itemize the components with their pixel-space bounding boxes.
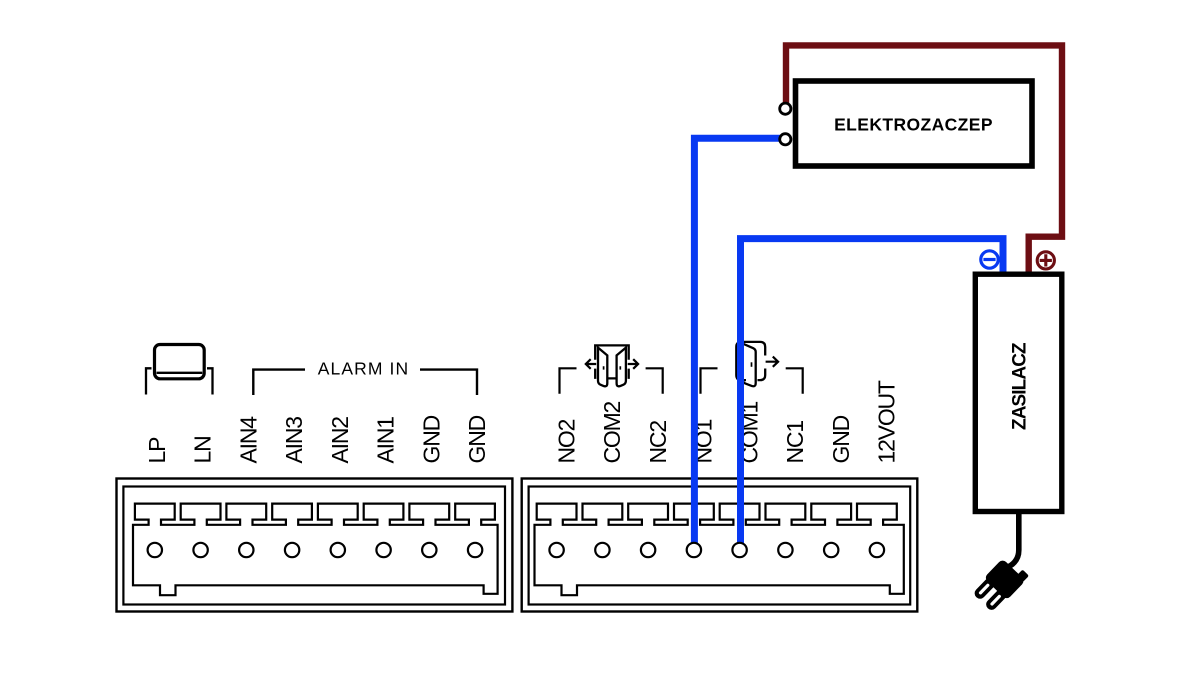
- svg-text:GND: GND: [464, 415, 490, 463]
- relay 2 arrow right: [766, 357, 779, 367]
- svg-text:AIN2: AIN2: [327, 417, 353, 464]
- terminal block 2 connector body with 8 slots: [535, 504, 904, 596]
- svg-text:ZASILACZ: ZASILACZ: [1010, 342, 1031, 430]
- svg-text:ELEKTROZACZEP: ELEKTROZACZEP: [834, 114, 993, 134]
- ELEKTROZACZEP terminal 1: [780, 103, 791, 114]
- svg-text:12VOUT: 12VOUT: [874, 380, 900, 463]
- terminal block 1 inner frame: [123, 487, 505, 605]
- svg-text:AIN3: AIN3: [281, 417, 307, 464]
- relay 2 bracket right: [786, 368, 803, 393]
- terminal block 1 connector body with 8 slots: [133, 504, 498, 596]
- relay 2 icon (door opening, arrow right) above COM1: [736, 342, 765, 386]
- ZASILACZ box: [975, 274, 1062, 511]
- terminal block 2 inner frame: [529, 487, 911, 605]
- svg-text:GND: GND: [418, 415, 444, 463]
- ALARM IN range bracket: [253, 370, 477, 395]
- ELEKTROZACZEP box: [796, 81, 1033, 166]
- svg-text:LP: LP: [144, 437, 170, 464]
- mains plug: [971, 554, 1030, 614]
- relay 1 arrow right: [628, 359, 638, 369]
- handset bracket left: [146, 368, 152, 394]
- svg-text:GND: GND: [828, 415, 854, 463]
- wire blue 1: ELEKTROZACZEP terminal 2 to NO1: [694, 138, 781, 550]
- svg-text:NC2: NC2: [645, 421, 671, 464]
- svg-text:AIN1: AIN1: [373, 417, 399, 464]
- relay 1 icon (double door, arrows out) above COM2: [595, 345, 629, 386]
- relay 1 bracket right: [646, 368, 663, 393]
- pin holes block 2: [549, 543, 884, 557]
- relay 1 door handles: [604, 366, 621, 369]
- relay 1 bracket left: [560, 368, 577, 393]
- svg-text:AIN4: AIN4: [235, 416, 261, 464]
- svg-text:NC1: NC1: [782, 421, 808, 464]
- ELEKTROZACZEP terminal 2: [780, 134, 791, 145]
- handset bracket right: [207, 368, 213, 394]
- plus symbol: [1037, 252, 1054, 269]
- relay 1 arrow left: [586, 359, 596, 369]
- terminal block 1 outer frame: [117, 479, 513, 612]
- wire blue 2: ZASILACZ minus to COM1: [741, 239, 1004, 550]
- svg-text:LN: LN: [190, 436, 216, 463]
- handset icon (monitor) above LP LN: [155, 345, 205, 379]
- svg-text:NO2: NO2: [553, 419, 579, 463]
- terminal block 2 outer frame: [522, 479, 918, 612]
- svg-text:ALARM IN: ALARM IN: [318, 358, 409, 378]
- svg-text:COM2: COM2: [599, 401, 625, 463]
- pin holes block 1: [148, 543, 483, 557]
- wire maroon: ELEKTROZACZEP terminal 1 loop to ZASILACZ plus: [786, 45, 1062, 273]
- relay 2 door handle: [751, 362, 753, 367]
- relay 2 bracket left: [701, 368, 718, 393]
- power cord from ZASILACZ: [1009, 512, 1019, 567]
- minus symbol: [981, 251, 998, 268]
